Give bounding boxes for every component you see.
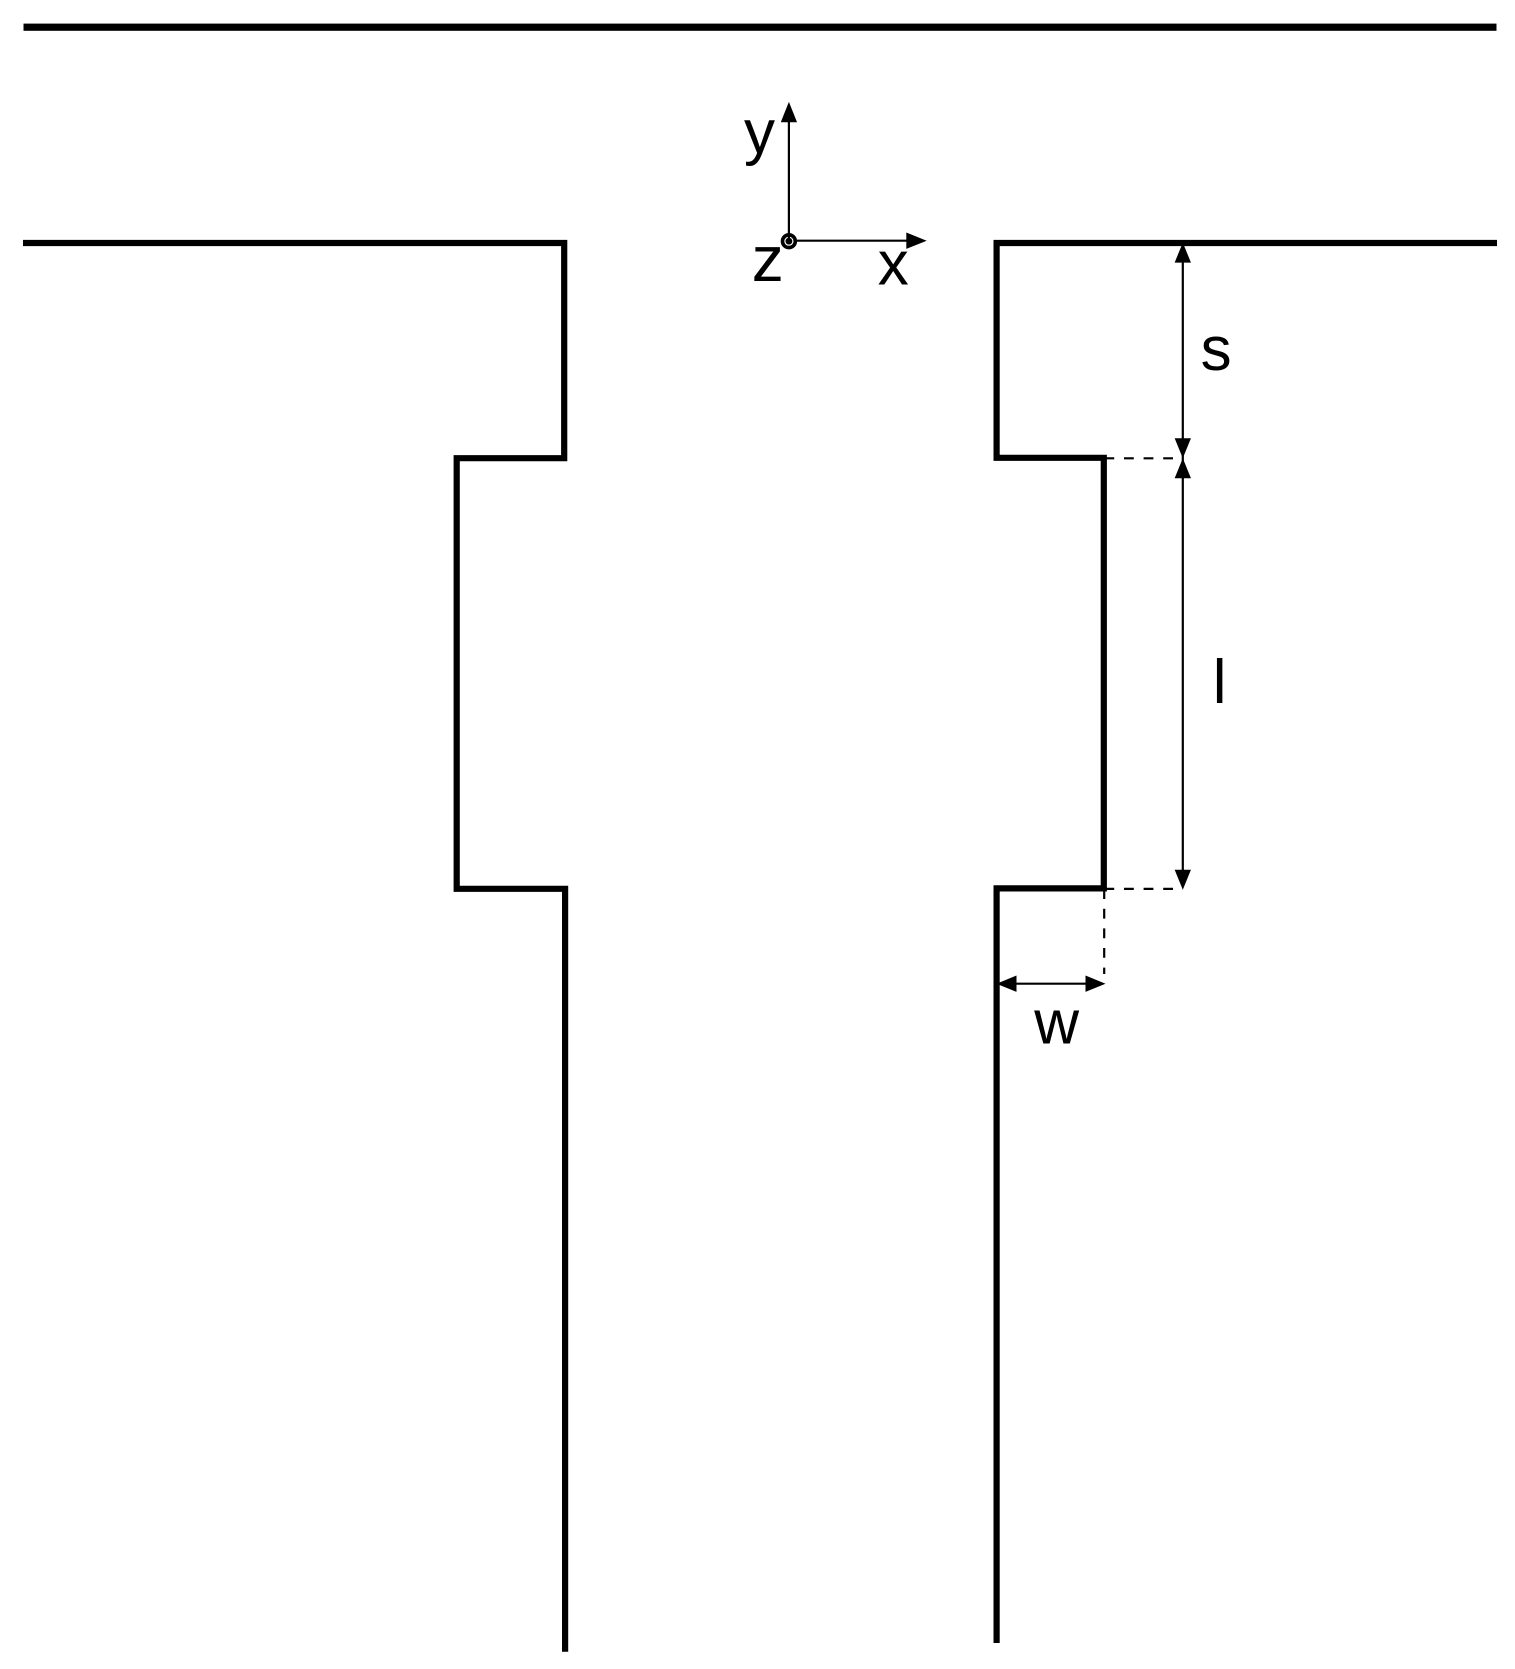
top substrate edge bar xyxy=(24,24,1497,31)
origin circle (z axis out of plane) xyxy=(783,235,796,248)
arrowhead w left xyxy=(997,976,1017,992)
origin dot xyxy=(786,238,793,245)
dimension line w xyxy=(999,983,1103,985)
dashed extension line at stub bottom xyxy=(1104,888,1183,890)
y axis line inside circle xyxy=(788,233,790,241)
arrowhead l top (up) xyxy=(1175,458,1191,478)
svg-text:l: l xyxy=(1213,648,1227,717)
dimension line s and l xyxy=(1182,246,1184,886)
right ground conductor outline xyxy=(997,243,1497,1643)
svg-text:z: z xyxy=(752,223,784,295)
x axis arrowhead xyxy=(906,233,926,249)
dashed extension line stub width xyxy=(1103,889,1105,974)
svg-text:y: y xyxy=(744,98,775,167)
svg-text:x: x xyxy=(878,230,909,299)
arrowhead l bottom (down) xyxy=(1175,870,1191,890)
y axis line xyxy=(788,121,790,242)
svg-text:s: s xyxy=(1201,315,1232,384)
x axis line xyxy=(797,240,907,242)
arrowhead w right xyxy=(1086,976,1106,992)
arrowhead s bottom (down) xyxy=(1175,438,1191,458)
y axis arrowhead xyxy=(781,102,797,122)
dashed extension line at stub top xyxy=(1104,457,1183,459)
svg-text:w: w xyxy=(1033,988,1079,1057)
left ground conductor outline xyxy=(23,243,565,1652)
arrowhead s top (up) xyxy=(1175,243,1191,263)
